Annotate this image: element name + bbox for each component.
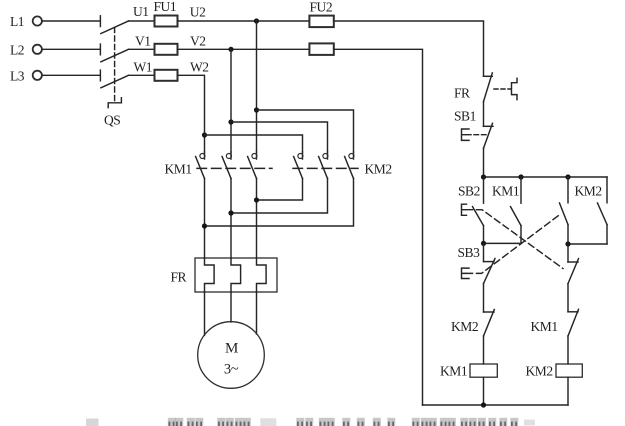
svg-text:M: M xyxy=(225,341,238,357)
node A dot 3 xyxy=(565,174,570,179)
node swap V xyxy=(228,210,233,215)
node A dot 1 xyxy=(481,174,486,179)
svg-text:W2: W2 xyxy=(190,60,209,75)
svg-text:L1: L1 xyxy=(10,14,24,29)
fuse FU2 b xyxy=(309,43,333,55)
wire FR to motor 2 xyxy=(230,292,232,322)
svg-text:FU1: FU1 xyxy=(154,0,177,14)
FR actuator hook xyxy=(512,78,518,99)
contactor KM1 main pole 2 xyxy=(222,152,231,179)
svg-text:FR: FR xyxy=(454,86,470,101)
wire SB2NC to KM1 NC xyxy=(567,284,569,312)
svg-text:3~: 3~ xyxy=(224,362,239,378)
wire V2 row xyxy=(178,48,310,50)
switch QS linkage dashed xyxy=(114,28,116,103)
wire node B xyxy=(484,242,522,244)
FR contact dashed link xyxy=(494,88,511,90)
FR heater element 3 xyxy=(257,258,267,292)
svg-text:SB2: SB2 xyxy=(458,184,480,199)
fuse FU1 a xyxy=(155,16,178,27)
fuse FU2 a xyxy=(309,16,333,28)
pushbutton SB3 NC xyxy=(462,243,496,283)
node tap W to KM2 xyxy=(202,132,207,137)
svg-text:V1: V1 xyxy=(135,33,151,48)
wire L2 to QS xyxy=(42,48,99,50)
svg-text:L3: L3 xyxy=(10,69,25,84)
svg-text:L2: L2 xyxy=(10,43,24,58)
FR heater element 1 xyxy=(205,258,215,292)
wire V2 down xyxy=(230,49,232,152)
wire L1 to QS xyxy=(42,20,99,22)
wire KM2NC to coil KM1 xyxy=(483,336,485,364)
wire SB1 to node A xyxy=(483,148,485,177)
svg-text:U2: U2 xyxy=(190,4,206,19)
svg-text:FU2: FU2 xyxy=(310,0,333,14)
contactor KM1 aux NO xyxy=(511,177,522,243)
wire W2 down xyxy=(178,75,205,152)
terminal L3 xyxy=(10,69,42,84)
bottom rail wire xyxy=(423,404,569,406)
motor M xyxy=(198,322,265,389)
node U2 tap xyxy=(254,18,259,23)
pushbutton SB3 NO xyxy=(560,177,569,244)
contactor KM2 NC interlock xyxy=(484,310,495,337)
pushbutton SB2 NC xyxy=(568,244,579,284)
pushbutton SB2 NO xyxy=(462,177,484,243)
svg-text:QS: QS xyxy=(104,113,120,128)
coil KM2 xyxy=(556,364,582,377)
wire tap U to KM2 pole3 xyxy=(257,110,354,152)
thermal relay FR contact xyxy=(454,73,492,102)
wire FU2a to control xyxy=(334,21,484,76)
KM1 main linkage dashed xyxy=(197,167,272,169)
wire tap V to KM2 pole2 xyxy=(231,122,328,152)
wire KM2 pole1 bottom swap xyxy=(257,179,303,201)
wire FR to motor 1 xyxy=(204,292,206,335)
fuse FU1 b xyxy=(155,44,178,55)
node B dot xyxy=(481,241,486,246)
svg-text:FR: FR xyxy=(171,270,187,285)
wire FR to SB1 xyxy=(483,102,485,127)
wire KM2 pole3 bottom swap xyxy=(205,179,354,227)
contactor KM1 main pole 3 xyxy=(248,152,257,179)
svg-text:KM2: KM2 xyxy=(526,364,553,379)
node tap U to KM2 xyxy=(254,107,259,112)
node tap V to KM2 xyxy=(228,119,233,124)
svg-text:SB3: SB3 xyxy=(458,245,481,260)
contactor KM1 main pole 1 xyxy=(196,152,205,179)
node swap U xyxy=(254,197,259,202)
wire coil KM1 down xyxy=(483,377,485,405)
caption (clipped chinese text) xyxy=(86,418,535,426)
SB3 interlock dashed to SB3 NO xyxy=(466,214,561,273)
node A dot 2 xyxy=(518,174,523,179)
svg-text:KM1: KM1 xyxy=(165,162,192,177)
svg-text:KM2: KM2 xyxy=(451,319,478,334)
contactor KM1 NC interlock xyxy=(568,309,579,336)
wire QS3 to FU1c xyxy=(129,74,155,76)
contactor KM2 main pole 2 xyxy=(319,152,328,179)
svg-text:KM1: KM1 xyxy=(440,364,467,379)
wire L3 to QS xyxy=(42,74,99,76)
coil KM1 xyxy=(470,364,497,377)
switch QS pole 1 xyxy=(100,16,128,34)
wire coil KM2 down xyxy=(567,377,569,405)
fuse FU1 c xyxy=(155,70,178,81)
wire KM1 pole2 down xyxy=(230,179,232,259)
SB2 interlock dashed to SB2 NC xyxy=(466,210,563,269)
wire QS1 to FU1a xyxy=(129,20,155,22)
FR heater element 2 xyxy=(231,258,241,292)
svg-text:KM2: KM2 xyxy=(575,184,602,199)
node C dot xyxy=(565,241,570,246)
wire U2 row xyxy=(178,20,310,22)
svg-text:U1: U1 xyxy=(133,4,149,19)
terminal L2 xyxy=(10,43,42,58)
wire SB3 to KM2 NC xyxy=(483,284,485,312)
svg-text:SB1: SB1 xyxy=(454,109,476,124)
wire tap W to KM2 pole1 xyxy=(205,135,303,152)
wire KM2 pole2 bottom xyxy=(231,179,328,214)
wire node C xyxy=(568,243,607,245)
switch QS handle xyxy=(108,98,121,108)
wire FR to motor 3 xyxy=(256,292,258,334)
terminal L1 xyxy=(10,14,42,29)
contactor KM2 aux NO xyxy=(598,177,608,244)
wire KM1 pole1 down xyxy=(204,179,206,259)
contactor KM2 main pole 3 xyxy=(345,152,354,179)
svg-text:W1: W1 xyxy=(134,60,153,75)
node V2 tap xyxy=(228,47,233,52)
node swap W xyxy=(202,223,207,228)
control bus node A xyxy=(484,176,608,178)
wire FU2b to left rail xyxy=(334,49,423,405)
wire KM1NC to coil KM2 xyxy=(567,336,569,364)
pushbutton SB1 NC xyxy=(454,109,493,149)
wire U2 down xyxy=(256,21,258,152)
svg-text:KM2: KM2 xyxy=(365,162,392,177)
KM2 main linkage dashed xyxy=(293,167,358,169)
thermal relay FR heater box xyxy=(195,258,277,292)
switch QS pole 2 xyxy=(100,44,128,62)
bottom rail node xyxy=(481,402,486,407)
svg-text:KM1: KM1 xyxy=(492,184,519,199)
contactor KM2 main pole 1 xyxy=(294,152,303,179)
SB1 dashed link xyxy=(467,134,490,136)
wire QS2 to FU1b xyxy=(129,48,155,50)
wire KM1 pole3 down xyxy=(256,179,258,259)
svg-text:KM1: KM1 xyxy=(531,319,558,334)
switch QS pole 3 xyxy=(100,70,128,88)
svg-text:V2: V2 xyxy=(190,33,206,48)
